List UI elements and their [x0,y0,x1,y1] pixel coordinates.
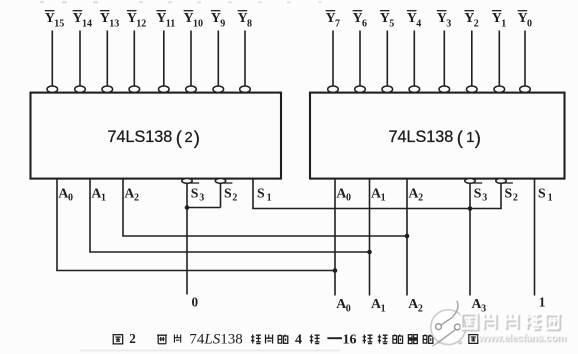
caption: fig number 图 2 [113,331,136,346]
wire net A2 horizontal U2.A2 to U1.A2 [122,235,408,237]
wire output Y7 [332,31,334,86]
bubble Y12 (active-low) [129,86,140,92]
svg-text:(: ( [176,127,183,148]
wire output Y4 [413,31,415,86]
decoder U1 74LS138(1) body [310,93,565,179]
pin label S3-bar (U2) [190,183,204,204]
wire output Y15 [51,31,53,86]
wire output Y9 [217,31,219,86]
svg-text:2: 2 [418,303,423,314]
wire output Y5 [386,31,388,86]
svg-text:9: 9 [220,19,225,30]
bubble Y4 (active-low) [409,86,420,92]
svg-text:3: 3 [482,193,487,204]
output label Y10 [184,10,203,30]
pin label S2-bar (U1) [504,183,518,204]
svg-text:5: 5 [389,19,394,30]
bubble Y3 (active-low) [439,86,450,92]
svg-text:74LS138: 74LS138 [189,331,242,347]
scan smudge at bottom edge [80,350,340,352]
svg-text:1: 1 [381,193,386,204]
wire U1.A2 vertical [406,179,408,296]
wire U1.A0 vertical [334,179,336,296]
svg-text:S: S [505,185,513,200]
bubble Y2 (active-low) [467,86,478,92]
wire U1.A1 vertical [369,179,371,296]
caption text: 两片 74LS138 构成的 4 线 [157,331,319,347]
wire output Y8 [244,31,246,86]
svg-text:A: A [58,185,68,200]
output label Y15 [45,10,64,30]
svg-text:1: 1 [466,130,474,146]
bubble Y6 (active-low) [355,86,366,92]
bubble Y1 (active-low) [494,86,505,92]
svg-text:7: 7 [335,19,340,30]
svg-text:2: 2 [134,193,139,204]
bubble Y5 (active-low) [382,86,393,92]
output label Y7 [326,10,340,30]
bubble Y7 (active-low) [328,86,339,92]
bubble Y0 (active-low) [520,86,531,92]
wire output Y6 [359,31,361,86]
wire output Y12 [133,31,135,86]
output label Y12 [127,10,146,30]
bubble Y15 (active-low) [47,86,58,92]
wire output Y14 [79,31,81,86]
pin label A0 (U1) [336,185,351,203]
net label A1 [371,296,386,314]
svg-text:1: 1 [381,303,386,314]
junction net A3 at U1.S3 [468,206,473,211]
svg-text:2: 2 [232,193,237,204]
bubble U1.S2 (active-low enable) [496,179,506,184]
svg-text:A: A [472,296,482,311]
wire U1.S1 vertical to 1 [534,179,536,296]
svg-text:A: A [371,185,381,200]
pin label S1 (U2) [257,185,272,203]
pin label S2-bar (U2) [223,183,237,204]
net label A3 [472,296,487,314]
decoder U2 74LS138(2) body [31,93,282,179]
wire tie U2.S2 to U2.S3 [186,207,220,209]
svg-text:4: 4 [295,332,302,347]
pin label A1 (U2) [91,185,106,203]
pin label A2 (U2) [124,185,139,203]
pin label A1 (U1) [371,185,386,203]
output label Y5 [380,10,394,30]
svg-text:1: 1 [101,193,106,204]
svg-text:A: A [371,296,381,311]
svg-text:S: S [474,185,482,200]
svg-text:14: 14 [82,19,92,30]
caption text: -16 线译码器的 [327,333,432,348]
svg-text:0: 0 [68,193,73,204]
wire output Y2 [471,31,473,86]
pin label S1 (U1) [538,185,553,203]
svg-text:3: 3 [199,193,204,204]
svg-text:3: 3 [481,303,486,314]
output label Y13 [100,10,119,30]
svg-text:): ) [475,127,481,148]
wire U2.S3 vertical to 0 [186,183,188,294]
junction net A1 at U1.A1 [367,250,372,255]
output label Y4 [407,10,421,30]
svg-text:www.elecfans.com: www.elecfans.com [477,333,566,344]
label U2 74LS138(2) [108,127,200,148]
wire U1.S3 vertical to A3 [469,183,471,295]
svg-text:A: A [336,296,346,311]
svg-text:S: S [191,185,199,200]
svg-text:10: 10 [193,19,203,30]
svg-text:6: 6 [362,19,367,30]
output label Y14 [73,10,92,30]
wire net A1 horizontal U2.A1 to U1.A1 [89,251,370,253]
wire output Y11 [163,31,165,86]
output label Y6 [353,10,367,30]
svg-text:2: 2 [129,331,136,346]
svg-text:A: A [91,185,101,200]
svg-text:2: 2 [185,130,193,146]
wire output Y10 [190,31,192,86]
watermark logo circle (elecfans) [431,301,466,346]
junction net A0 at U1.A0 [333,268,338,273]
label U1 74LS138(1) [389,127,481,148]
bubble U2.S2 (active-low enable) [215,179,225,184]
wire U2.S1 vertical stub [252,179,254,209]
wire U2.S2 vertical stub [220,183,222,207]
svg-text:11: 11 [166,19,175,30]
svg-text:0: 0 [346,193,351,204]
svg-text:1: 1 [267,193,272,204]
wire output Y13 [106,31,108,86]
output label Y1 [492,10,506,30]
svg-text:A: A [408,296,418,311]
wire output Y1 [498,31,500,86]
pin label A0 (U2) [58,185,73,203]
bubble Y10 (active-low) [186,86,197,92]
wire U2.A0 vertical [56,179,58,271]
wire output Y3 [443,31,445,86]
bubble Y13 (active-low) [102,86,113,92]
wire net A0 horizontal U2.A0 to U1.A0 [56,270,336,272]
bubble U1.S3 (active-low enable) [465,179,475,184]
output label Y8 [238,10,252,30]
svg-text:0: 0 [346,303,351,314]
svg-text:(: ( [457,127,464,148]
net label A2 [408,296,423,314]
junction U2.S3/S2 tie [185,205,190,210]
wire U1.S2 vertical stub [500,183,502,208]
bubble U2.S3 (active-low enable) [182,179,192,184]
pin label S3-bar (U1) [473,183,487,204]
bubble Y8 (active-low) [240,86,251,92]
svg-text:1: 1 [539,294,546,309]
svg-text:0: 0 [192,294,199,309]
svg-text:A: A [336,185,346,200]
svg-text:): ) [194,127,200,148]
faint cut-off text remnants at top edge [40,1,322,3]
svg-text:S: S [224,185,232,200]
svg-text:13: 13 [109,19,119,30]
svg-text:0: 0 [527,19,532,30]
caption text: final 图 [469,335,478,344]
output label Y2 [464,10,478,30]
wire net A3: U2.S1 to U1.S2 horizontal [252,208,502,210]
watermark text 电子发烧友 [462,314,562,331]
wire U2.A1 vertical [89,179,91,252]
svg-text:A: A [409,185,419,200]
svg-text:74LS138: 74LS138 [389,128,454,146]
net label A0 [336,296,351,314]
svg-text:8: 8 [247,19,252,30]
junction net A2 at U1.A2 [405,234,410,239]
bubble Y14 (active-low) [75,86,86,92]
svg-text:1: 1 [548,193,553,204]
output label Y11 [156,10,175,30]
wire output Y0 [524,31,526,86]
output label Y9 [211,10,225,30]
pin label A2 (U1) [409,185,424,203]
svg-text:A: A [124,185,134,200]
svg-text:2: 2 [513,193,518,204]
svg-text:16: 16 [343,333,357,348]
bubble Y11 (active-low) [159,86,170,92]
svg-text:15: 15 [54,19,64,30]
output label Y3 [437,10,451,30]
svg-text:1: 1 [501,19,506,30]
svg-text:3: 3 [446,19,451,30]
svg-text:S: S [257,185,265,200]
bubble Y9 (active-low) [213,86,224,92]
svg-text:12: 12 [136,19,146,30]
wire U2.A2 vertical [122,179,124,236]
output label Y0 [518,10,532,30]
svg-text:4: 4 [416,19,421,30]
svg-text:74LS138: 74LS138 [108,128,173,146]
svg-text:2: 2 [474,19,479,30]
svg-text:S: S [538,185,546,200]
caption text (faint, under watermark): 连接 [438,335,463,344]
svg-text:2: 2 [418,193,423,204]
watermark url www.elecfans.com [477,333,567,345]
